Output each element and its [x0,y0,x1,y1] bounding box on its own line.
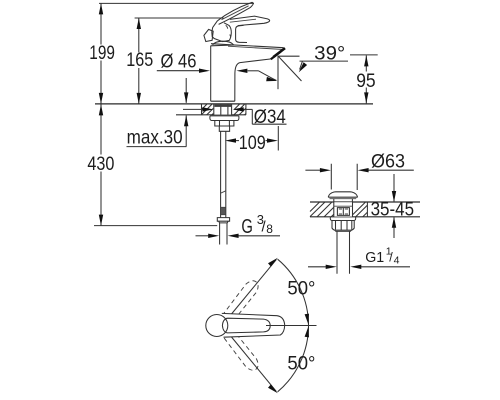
spout top edges [211,44,284,50]
handle hub [212,21,232,42]
cartridge dome [213,41,234,45]
svg-text:35-45: 35-45 [371,199,415,220]
angle arc upper 50° [278,259,309,325]
label 430 [86,154,116,175]
handle lever raised blade [217,2,253,24]
dimension Ø63 [305,164,413,190]
deck bottom line [176,114,246,116]
handle top view solid [206,313,285,337]
hose reducer [219,126,229,131]
label Ø34 with leader [252,107,286,128]
svg-text:109: 109 [239,133,266,154]
mounting hex nut [215,121,234,127]
counter section lines [310,202,420,217]
dimension 165 vertical line [137,18,141,104]
diagonal extension line up [232,258,278,314]
drain body in counter [334,202,353,217]
handle rest lever grip [230,16,270,26]
vertical line from aerator [277,56,279,89]
hose end fitting [221,207,226,214]
svg-text:G1: G1 [365,250,384,266]
svg-text:165: 165 [126,50,153,71]
svg-text:Ø34: Ø34 [254,107,286,128]
430 bottom reference line [94,225,217,227]
angle arc lower 50° [278,326,309,392]
hub left facet [204,29,213,41]
deck top line [95,103,373,105]
deck hatch right block [234,104,246,115]
label 50° lower [287,354,315,375]
dimension 95 vertical [350,55,378,104]
handle neck [236,25,247,42]
drain flange ring [330,217,355,221]
reference line (lever rest level) [135,17,224,19]
drain tailpipe [337,231,350,273]
counter hatch right [353,202,368,217]
label 95 [355,71,377,92]
counter hatch left [310,202,334,217]
svg-text:95: 95 [356,71,376,92]
handle centerline [266,325,317,327]
dashed handle rotated down 50° [222,328,262,373]
svg-text:G: G [241,216,253,238]
svg-text:Ø 46: Ø 46 [161,51,197,72]
dashed handle rotated up 50° [222,278,262,323]
dimension G1 1/4 [308,265,410,269]
hub crease lines [226,25,231,37]
mounting flange [210,116,239,121]
drain neck [334,199,353,202]
svg-text:430: 430 [87,154,114,175]
svg-text:50°: 50° [287,354,315,375]
aerator [271,48,285,59]
dimension 199/430 vertical line [99,3,103,225]
label Ø63 [371,152,405,173]
faucet body [211,45,235,101]
dimension max.30 vertical with arrows [184,78,188,147]
diagonal extension line down [232,337,278,393]
flexible hose [221,131,226,217]
drain locknut [332,221,354,232]
label Ø 46 [161,51,197,72]
swivel arc arrow at spout [259,71,278,82]
svg-text:4: 4 [394,255,400,267]
label max.30 with underline [127,127,187,148]
label 50° upper [287,279,315,300]
dimension G3/8 [196,234,281,238]
svg-text:39°: 39° [314,43,345,64]
svg-text:8: 8 [266,222,273,236]
svg-text:199: 199 [89,43,115,64]
deck hatch left block [202,104,214,115]
dimension 109 [225,126,278,154]
water jet direction line [279,57,302,82]
drain dome cap [328,192,357,199]
svg-text:max.30: max.30 [127,127,183,148]
dimension 35-45 verticals [392,174,396,238]
label G1 1/4 [365,246,399,267]
label 165 [125,50,155,71]
G3/8 nut [217,218,229,223]
label 35-45 [371,199,415,220]
spout underside curve [235,59,271,101]
label 199 [88,43,116,64]
dimension Ø34 arrows at deck hole [183,107,252,111]
G3/8 thread [220,223,227,245]
handle centerline over grip [266,325,317,327]
svg-text:Ø63: Ø63 [371,152,405,173]
faucet shank in deck [214,104,232,115]
dimension Ø46 line with arrows [157,69,259,74]
label 39° with shelf and leader arrow [278,43,348,72]
top reference line (lever tip level) [99,2,254,4]
svg-text:50°: 50° [287,279,315,300]
label G 3/8 [241,212,273,238]
